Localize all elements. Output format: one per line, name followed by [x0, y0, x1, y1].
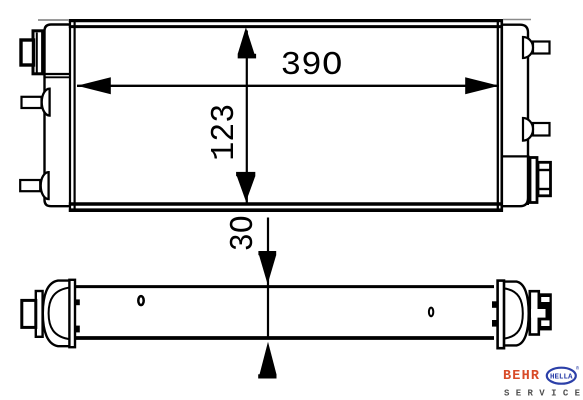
svg-text:S E R V I C E: S E R V I C E	[504, 389, 581, 399]
svg-text:3O: 3O	[225, 215, 262, 251]
svg-text:®: ®	[576, 365, 579, 372]
svg-text:39O: 39O	[281, 47, 343, 84]
svg-text:BEHR: BEHR	[503, 369, 540, 384]
svg-text:123: 123	[206, 104, 243, 161]
svg-text:HELLA: HELLA	[550, 373, 573, 381]
